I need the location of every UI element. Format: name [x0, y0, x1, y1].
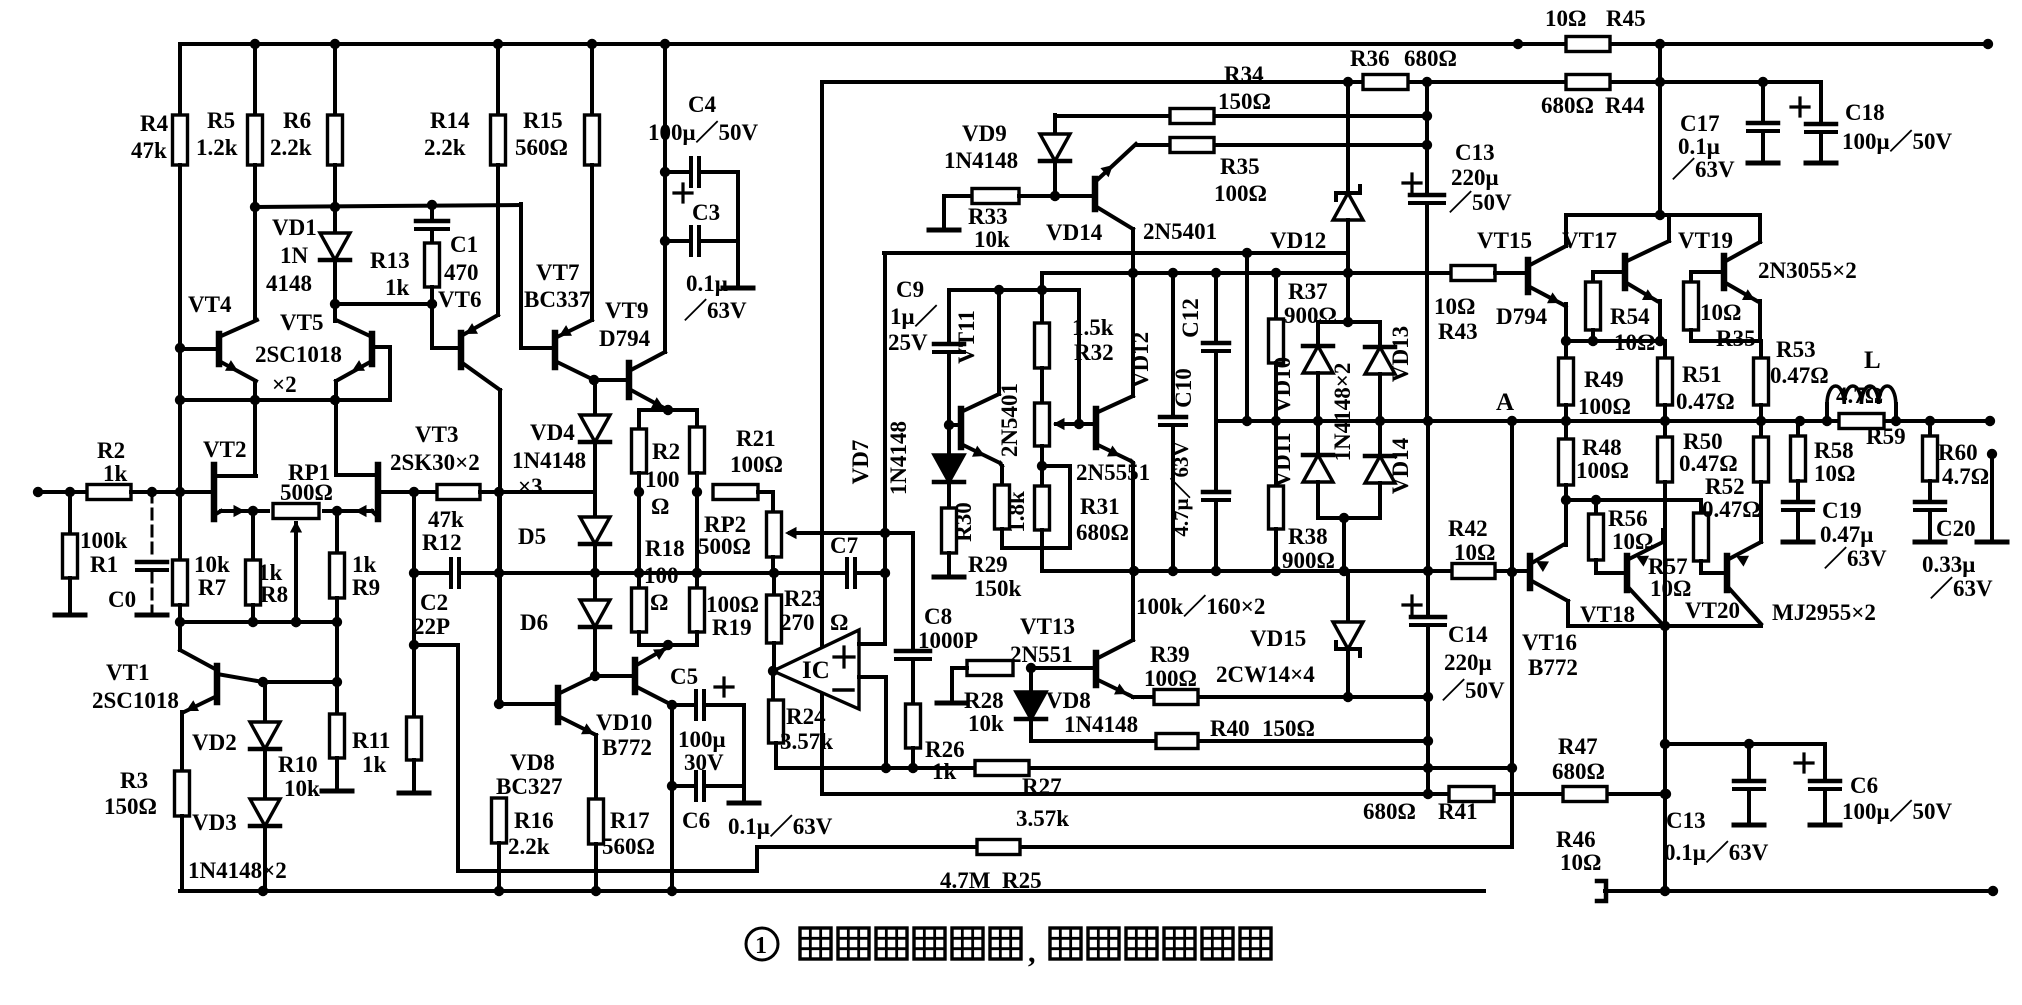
- wire C10 column: [1171, 273, 1175, 417]
- svg-text:1000P: 1000P: [918, 628, 978, 653]
- ground R30: [934, 575, 964, 580]
- wire opamp plus input stub: [859, 642, 885, 646]
- wire line 768: [776, 766, 975, 770]
- svg-text:C5: C5: [670, 664, 698, 689]
- resistor R49: [1564, 341, 1568, 358]
- wire bridge bottom: [1318, 516, 1380, 520]
- node line207 junction: [330, 202, 340, 212]
- svg-text:R25: R25: [1002, 868, 1042, 893]
- svg-text:2SK30×2: 2SK30×2: [390, 450, 480, 475]
- wiper arrow R32: [1056, 422, 1096, 426]
- node 500 dot: [1561, 495, 1571, 505]
- svg-text:R42: R42: [1448, 516, 1488, 541]
- diode VD7: [947, 425, 951, 455]
- capacitor C6 100u: [1823, 744, 1827, 781]
- svg-text:VD12: VD12: [1270, 228, 1326, 253]
- svg-text:×2: ×2: [272, 372, 297, 397]
- resistor R23: [772, 573, 776, 595]
- resistor R35 output: [1689, 272, 1693, 282]
- zener VD15: [1346, 571, 1350, 622]
- wire bus626 to R52: [1759, 532, 1763, 542]
- resistor R41: [1449, 787, 1494, 802]
- svg-text:2N5551: 2N5551: [1076, 460, 1150, 485]
- resistor R6: [333, 44, 337, 115]
- svg-text:500Ω: 500Ω: [698, 534, 751, 559]
- wire R31 loop: [1042, 464, 1070, 468]
- svg-text:C1: C1: [450, 232, 478, 257]
- transistor VT17: [1622, 256, 1629, 288]
- svg-text:C0: C0: [108, 587, 136, 612]
- wire line 341a: [1566, 339, 1665, 343]
- node 414 dots: [409, 568, 419, 578]
- diode VD8 1N4148: [1029, 668, 1033, 692]
- svg-text:1k: 1k: [352, 552, 377, 577]
- svg-text:100k／160×2: 100k／160×2: [1136, 593, 1265, 619]
- svg-text:680Ω: 680Ω: [1076, 520, 1129, 545]
- svg-text:0.47Ω: 0.47Ω: [1702, 497, 1761, 522]
- node bridge bus dots: [1313, 416, 1323, 426]
- svg-text:R30: R30: [951, 502, 976, 542]
- capacitor C13 0.1u: [1747, 744, 1751, 781]
- svg-text:×3: ×3: [518, 474, 543, 499]
- resistor R27: [975, 761, 1029, 776]
- svg-text:R60: R60: [1938, 440, 1978, 465]
- svg-text:150Ω: 150Ω: [104, 794, 157, 819]
- wire jog up to R25 line: [755, 847, 759, 871]
- svg-text:R2: R2: [97, 438, 125, 463]
- svg-text:VD14: VD14: [1046, 220, 1103, 245]
- wire 458 drop to 871: [456, 645, 460, 871]
- node C6 left junction: [667, 781, 677, 791]
- svg-text:2.2k: 2.2k: [270, 135, 312, 160]
- svg-text:R43: R43: [1438, 319, 1478, 344]
- svg-text:100k: 100k: [80, 528, 128, 553]
- resistor R50: [1663, 421, 1667, 437]
- caption text: [746, 928, 778, 960]
- wire line 290: [949, 288, 1079, 292]
- transistor VT2: [211, 465, 218, 519]
- svg-text:C12: C12: [1178, 298, 1203, 338]
- node right rail dots: [1988, 886, 1998, 896]
- svg-text:150Ω: 150Ω: [1262, 716, 1315, 741]
- resistor R37: [1274, 273, 1278, 319]
- svg-text:VT5: VT5: [280, 310, 323, 335]
- diode VD14 bridge: [1378, 374, 1382, 456]
- svg-text:R49: R49: [1584, 367, 1624, 392]
- transistor VD8 BC327: [497, 492, 501, 704]
- wire A bus: [1216, 419, 1839, 423]
- node output terminal: [1987, 449, 1997, 459]
- svg-text:VT19: VT19: [1678, 228, 1733, 253]
- wire 1512 column: [1510, 421, 1514, 847]
- svg-text:1k: 1k: [385, 275, 410, 300]
- svg-text:0.1μ: 0.1μ: [1678, 134, 1720, 159]
- svg-text:4.7Ω: 4.7Ω: [1942, 464, 1989, 489]
- resistor R51: [1663, 341, 1667, 358]
- svg-text:1N4148: 1N4148: [886, 421, 911, 495]
- svg-text:0.47Ω: 0.47Ω: [1770, 363, 1829, 388]
- resistor R18: [632, 588, 647, 632]
- svg-text:VD14: VD14: [1388, 437, 1413, 494]
- svg-text:R46: R46: [1556, 827, 1596, 852]
- resistor R57: [1699, 500, 1703, 513]
- resistor R30: [947, 482, 951, 508]
- node rail dots: [250, 39, 260, 49]
- svg-text:B772: B772: [1528, 655, 1578, 680]
- resistor R21: [695, 410, 699, 427]
- svg-text:L: L: [1864, 347, 1881, 374]
- svg-text:C9: C9: [896, 277, 924, 302]
- svg-text:2N5401: 2N5401: [1143, 219, 1217, 244]
- node 341 dots: [1561, 336, 1571, 346]
- transistor VT20: [1724, 556, 1731, 590]
- wire rail drop 1660: [1658, 44, 1662, 215]
- wire line 682: [263, 680, 337, 684]
- svg-text:2N5401: 2N5401: [997, 383, 1022, 457]
- svg-text:R8: R8: [260, 582, 288, 607]
- svg-text:R31: R31: [1080, 494, 1120, 519]
- svg-text:1μ／: 1μ／: [890, 303, 938, 329]
- svg-text:R41: R41: [1438, 799, 1478, 824]
- capacitor C20: [1915, 500, 1945, 505]
- capacitor C6: [672, 784, 696, 788]
- svg-text:R33: R33: [968, 204, 1008, 229]
- node R13 bottom dot: [427, 299, 437, 309]
- svg-text:560Ω: 560Ω: [602, 834, 655, 859]
- wire R39 line: [1133, 695, 1154, 699]
- diode D5: [593, 442, 597, 517]
- svg-text:R36: R36: [1350, 46, 1390, 71]
- node VT1 collector dot: [258, 677, 268, 687]
- wire C12 column: [1214, 273, 1218, 343]
- svg-text:100μ／50V: 100μ／50V: [648, 119, 759, 145]
- wire bridge bottom drop: [1342, 518, 1346, 571]
- svg-text:D6: D6: [520, 610, 548, 635]
- wire 1665 column down: [1663, 626, 1667, 891]
- svg-text:C10: C10: [1171, 368, 1196, 408]
- transistor VT9: [626, 363, 633, 397]
- node R31 top dot: [1037, 461, 1047, 471]
- svg-text:4.7M: 4.7M: [940, 868, 991, 893]
- svg-text:C2: C2: [420, 590, 448, 615]
- svg-text:VT20: VT20: [1685, 598, 1740, 623]
- ground C0: [137, 613, 167, 618]
- svg-text:A: A: [1496, 389, 1514, 416]
- svg-text:1N4148: 1N4148: [1064, 712, 1138, 737]
- svg-text:VT18: VT18: [1580, 602, 1635, 627]
- svg-text:R2: R2: [652, 439, 680, 464]
- svg-text:2SC1018: 2SC1018: [255, 342, 342, 367]
- svg-text:680Ω: 680Ω: [1552, 759, 1605, 784]
- svg-text:R24: R24: [786, 704, 826, 729]
- svg-text:R3: R3: [120, 768, 148, 793]
- diode D6: [593, 544, 597, 600]
- resistor R42: [1452, 564, 1495, 579]
- svg-text:R14: R14: [430, 108, 470, 133]
- diode VD9: [1053, 115, 1057, 134]
- svg-text:R4: R4: [140, 111, 169, 136]
- svg-text:10Ω: 10Ω: [1814, 461, 1855, 486]
- svg-text:BC337: BC337: [524, 287, 590, 312]
- svg-text:VD10: VD10: [1270, 357, 1295, 413]
- potentiometer RP2: [713, 485, 758, 500]
- resistor R47: [1563, 787, 1607, 802]
- resistor 1.8k: [995, 485, 1010, 529]
- resistor R16: [492, 798, 507, 843]
- resistor R60: [1928, 421, 1932, 436]
- svg-text:4.7Ω: 4.7Ω: [1836, 383, 1883, 408]
- svg-text:2N551: 2N551: [1010, 642, 1073, 667]
- transistor VT16: [1527, 556, 1534, 588]
- svg-text:220μ: 220μ: [1451, 165, 1499, 190]
- svg-text:100μ／50V: 100μ／50V: [1842, 128, 1953, 154]
- node 768 dots: [881, 763, 891, 773]
- svg-text:R54: R54: [1610, 304, 1650, 329]
- transistor VT19: [1721, 256, 1728, 288]
- svg-text:4.7μ／63V: 4.7μ／63V: [1169, 441, 1193, 536]
- svg-text:R6: R6: [283, 108, 311, 133]
- wire C5 right down: [742, 705, 746, 786]
- resistor R44: [1566, 75, 1610, 90]
- svg-text:VD4: VD4: [530, 420, 575, 445]
- capacitor C13 220u: [1425, 82, 1429, 195]
- node opamp output dot: [768, 666, 778, 676]
- capacitor C18: [1819, 82, 1823, 124]
- svg-text:R19: R19: [712, 615, 752, 640]
- wiper line RP2: [790, 531, 913, 535]
- node VT9 emitter junction: [663, 405, 673, 415]
- ground R33: [942, 196, 946, 226]
- node line207 dot: [250, 202, 260, 212]
- node C1 top dot: [427, 200, 437, 210]
- wire top bar 410: [639, 408, 697, 412]
- wire C3/C4 right side: [736, 172, 740, 286]
- diode VD13 bridge: [1378, 322, 1382, 347]
- resistor R15: [590, 44, 594, 115]
- node R1 tap: [65, 487, 75, 497]
- resistor R7: [173, 560, 188, 605]
- svg-text:C20: C20: [1936, 516, 1976, 541]
- wire VT9 collector column: [663, 44, 667, 352]
- svg-text:VT1: VT1: [106, 660, 149, 685]
- resistor R2 input: [87, 485, 131, 500]
- node bottom rail dots: [258, 886, 268, 896]
- svg-text:VT2: VT2: [203, 437, 246, 462]
- wire emitter bus 400: [180, 398, 390, 402]
- resistor R19: [690, 588, 705, 632]
- svg-text:R59: R59: [1866, 424, 1906, 449]
- wire riser 414: [412, 492, 416, 645]
- svg-text:C4: C4: [688, 92, 717, 117]
- svg-text:C6: C6: [682, 808, 710, 833]
- node VD1 bottom junction: [330, 299, 340, 309]
- resistor R33: [944, 194, 972, 198]
- svg-text:10Ω: 10Ω: [1434, 294, 1475, 319]
- resistor R10: [335, 682, 339, 714]
- wire R40 line: [1031, 739, 1156, 743]
- wire line 645: [414, 643, 458, 647]
- svg-text:10Ω: 10Ω: [1560, 850, 1601, 875]
- svg-text:VD10: VD10: [596, 710, 652, 735]
- resistor R14: [496, 44, 500, 115]
- svg-text:220μ: 220μ: [1444, 650, 1492, 675]
- transistor VT1: [178, 622, 182, 650]
- svg-text:560Ω: 560Ω: [515, 135, 568, 160]
- svg-text:10k: 10k: [194, 552, 230, 577]
- svg-text:R9: R9: [352, 575, 380, 600]
- svg-text:100: 100: [645, 467, 680, 492]
- svg-text:680Ω: 680Ω: [1404, 46, 1457, 71]
- resistor R45: [1566, 37, 1610, 52]
- svg-text:10k: 10k: [974, 227, 1010, 252]
- potentiometer RP1: [221, 509, 268, 513]
- capacitor C9: [947, 290, 951, 344]
- resistor R24: [771, 671, 775, 700]
- svg-text:C14: C14: [1448, 622, 1488, 647]
- connector R46 hook: [1597, 881, 1606, 901]
- svg-text:／63V: ／63V: [1930, 575, 1993, 601]
- wire 672 column: [670, 705, 674, 891]
- svg-text:0.1μ／63V: 0.1μ／63V: [1664, 839, 1769, 865]
- op-amp IC: [773, 630, 859, 709]
- svg-text:VT16: VT16: [1522, 630, 1577, 655]
- svg-text:R35: R35: [1716, 326, 1756, 351]
- wire plus-input column: [883, 253, 887, 644]
- node 573 dots: [494, 568, 504, 578]
- node 1512 dots: [1507, 567, 1517, 577]
- svg-text:0.33μ: 0.33μ: [1922, 552, 1975, 577]
- wire line 273: [1042, 271, 1451, 275]
- svg-text:4148: 4148: [266, 271, 312, 296]
- node VT7 emitter junction: [589, 375, 599, 385]
- node R12 junctions: [494, 487, 504, 497]
- node 1749 dot: [1744, 739, 1754, 749]
- svg-text:1k: 1k: [932, 759, 957, 784]
- svg-text:BC327: BC327: [496, 774, 562, 799]
- wire line 573: [499, 571, 774, 575]
- wire emitter bus 626: [1568, 624, 1761, 628]
- svg-text:47k: 47k: [428, 507, 464, 532]
- svg-text:R45: R45: [1606, 6, 1646, 31]
- svg-text:R15: R15: [523, 108, 563, 133]
- resistor R53: [1759, 341, 1763, 358]
- node R56 top dot: [1591, 495, 1601, 505]
- wire second rail: [822, 80, 1363, 84]
- resistor R32 lower: [1040, 368, 1044, 403]
- resistor R12: [437, 485, 480, 500]
- diode VD11 bridge: [1316, 373, 1320, 455]
- wire bridge top: [1318, 320, 1380, 324]
- wire minus column: [884, 677, 888, 768]
- wire R9-column riser: [335, 622, 339, 682]
- wire line 871: [458, 869, 757, 873]
- node R21/R19 junctions: [692, 487, 702, 497]
- svg-text:C18: C18: [1845, 100, 1885, 125]
- svg-text:2.2k: 2.2k: [508, 834, 550, 859]
- resistor R39: [1154, 690, 1198, 705]
- node top-right terminal: [1983, 39, 1993, 49]
- transistor VT18: [1624, 556, 1631, 590]
- svg-text:Ω: Ω: [830, 610, 848, 635]
- node BC327 base dot: [494, 699, 504, 709]
- ground R1: [55, 613, 85, 618]
- svg-text:1N: 1N: [280, 243, 309, 268]
- svg-text:Ω: Ω: [650, 590, 668, 615]
- wire line 207: [255, 205, 520, 207]
- resistor R11: [412, 645, 416, 717]
- ground R10: [322, 789, 352, 794]
- svg-text:0.47μ: 0.47μ: [1820, 522, 1873, 547]
- zener VD12: [1346, 82, 1350, 193]
- wire line 341b: [1691, 339, 1761, 343]
- node bus626 dot: [1660, 621, 1670, 631]
- resistor R43: [1451, 266, 1495, 281]
- node C3 tap dot: [660, 236, 670, 246]
- svg-text:VT3: VT3: [415, 422, 458, 447]
- diode VD2: [263, 682, 267, 722]
- svg-text:VD11: VD11: [1270, 433, 1295, 488]
- capacitor C17: [1761, 82, 1765, 123]
- resistor R35: [1170, 138, 1214, 153]
- svg-text:150k: 150k: [974, 576, 1022, 601]
- svg-text:100μ: 100μ: [678, 727, 726, 752]
- svg-text:R39: R39: [1150, 642, 1190, 667]
- svg-text:VD12: VD12: [1128, 332, 1153, 388]
- transistor VT4: [216, 334, 223, 364]
- svg-text:C6: C6: [1850, 773, 1878, 798]
- svg-text:1N4148×2: 1N4148×2: [188, 858, 287, 883]
- svg-text:VD8: VD8: [510, 750, 555, 775]
- svg-text:270: 270: [780, 610, 815, 635]
- wire R43 line: [1216, 271, 1451, 275]
- resistor R25: [977, 840, 1020, 855]
- wire line 622: [180, 620, 337, 624]
- resistor R34: [1170, 109, 1214, 124]
- node bus dots: [250, 395, 260, 405]
- svg-text:VD7: VD7: [848, 440, 873, 485]
- node B772 emitter junction: [667, 700, 677, 710]
- transistor VT15: [1525, 260, 1532, 292]
- svg-text:／50V: ／50V: [1442, 677, 1505, 703]
- svg-text:VD3: VD3: [192, 810, 237, 835]
- transistor VT11: [958, 409, 965, 447]
- svg-text:C8: C8: [924, 604, 952, 629]
- svg-text:／63V: ／63V: [1824, 545, 1887, 571]
- wire bottom right rail: [1605, 889, 1993, 893]
- wire bottom bar 645: [639, 643, 697, 647]
- resistor R52: [1759, 421, 1763, 437]
- svg-text:47k: 47k: [131, 138, 167, 163]
- terminal bar 0.1u/63V: [723, 286, 753, 291]
- svg-text:R58: R58: [1814, 438, 1854, 463]
- wire line 548: [1002, 546, 1042, 550]
- svg-text:680Ω: 680Ω: [1541, 93, 1594, 118]
- svg-text:100Ω: 100Ω: [1214, 181, 1267, 206]
- svg-text:2CW14×4: 2CW14×4: [1216, 662, 1315, 687]
- svg-text:R16: R16: [514, 808, 554, 833]
- svg-text:R5: R5: [207, 108, 235, 133]
- transistor VT13: [1093, 653, 1100, 685]
- svg-text:R37: R37: [1288, 279, 1328, 304]
- svg-text:3.57k: 3.57k: [780, 729, 833, 754]
- svg-text:IC: IC: [802, 657, 830, 684]
- svg-text:R18: R18: [645, 536, 685, 561]
- wire left box vertical: [820, 82, 824, 794]
- svg-text:C17: C17: [1680, 111, 1720, 136]
- wire line 744: [1665, 742, 1825, 746]
- node 794 dots: [1423, 789, 1433, 799]
- transistor VT12 2N5551: [1093, 409, 1100, 447]
